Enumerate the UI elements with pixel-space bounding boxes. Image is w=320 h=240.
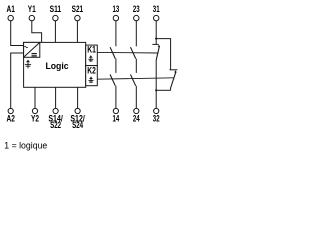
- wire between contacts 23-24: [135, 59, 137, 73]
- wire 31 down: [155, 21, 157, 45]
- svg-text:13: 13: [113, 4, 120, 14]
- terminal S11: [50, 4, 62, 21]
- K1 actuation linkage line: [97, 51, 158, 54]
- relay K2: [86, 66, 98, 86]
- terminal 31: [153, 4, 160, 21]
- wire 13 down: [115, 21, 117, 47]
- drive symbol in logic block: [25, 60, 31, 69]
- wire 23 down: [135, 21, 137, 47]
- wire Y1 to logic top: [32, 21, 42, 43]
- terminal Y2: [31, 108, 39, 123]
- contact K1 31-32 NC seat: [152, 43, 158, 45]
- wire K2 NC blade down: [170, 88, 172, 90]
- wire between contacts 13-14: [115, 59, 117, 73]
- contact K1 23-24 NO blade: [131, 47, 136, 58]
- contact K2 31-32 NC blade: [171, 72, 176, 88]
- terminal 32: [153, 108, 160, 123]
- relay K1: [86, 44, 98, 65]
- wire NC1 blade to 32: [155, 60, 157, 109]
- svg-text:Logic: Logic: [45, 60, 68, 71]
- node junction at 31 branch: [155, 38, 157, 40]
- svg-text:Y2: Y2: [31, 113, 39, 123]
- terminal 14: [113, 108, 120, 123]
- svg-text:S22: S22: [50, 120, 61, 130]
- svg-text:A2: A2: [7, 113, 15, 123]
- contact K2 13-14 NO blade: [110, 75, 115, 86]
- terminal A1: [7, 4, 15, 21]
- svg-text:S24: S24: [72, 120, 83, 130]
- contact K2 31-32 NC seat: [170, 69, 178, 71]
- wire A1 to power supply input: [11, 21, 24, 46]
- wire logic bottom to S14/S22: [55, 87, 57, 108]
- wire back to 32 column: [156, 89, 170, 91]
- node junction at 32: [155, 89, 157, 91]
- svg-text:A1: A1: [7, 4, 15, 14]
- wire bypass to K2 NC contact: [156, 39, 170, 70]
- terminal 24: [133, 108, 140, 123]
- wire S11 to logic top: [54, 21, 56, 43]
- svg-text:S21: S21: [72, 4, 84, 14]
- contact K1 31-32 NC arrow: [158, 45, 161, 47]
- wire A2 to power supply input: [11, 53, 24, 109]
- wire S21 to logic top: [76, 21, 78, 43]
- wire to 14: [115, 86, 117, 109]
- svg-text:K1: K1: [87, 44, 96, 54]
- contact K1 13-14 NO blade: [110, 47, 115, 58]
- terminal Y1: [28, 4, 36, 21]
- svg-text:14: 14: [113, 113, 120, 123]
- contact K2 23-24 NO blade: [131, 75, 136, 86]
- svg-text:23: 23: [133, 4, 140, 14]
- terminal S14/S22: [48, 108, 63, 130]
- svg-text:1 = logique: 1 = logique: [4, 141, 47, 152]
- logic block U1: [24, 42, 86, 87]
- svg-text:31: 31: [153, 4, 160, 14]
- wire to 24: [135, 86, 137, 109]
- svg-text:32: 32: [153, 113, 160, 123]
- contact K1 31-32 NC blade: [156, 46, 159, 60]
- svg-text:K2: K2: [87, 66, 96, 76]
- contact K2 31-32 NC arrow: [174, 70, 177, 72]
- terminal 13: [113, 4, 120, 21]
- terminal S21: [72, 4, 84, 21]
- power supply AC/DC converter: [24, 42, 40, 57]
- wire logic bottom to S12/S24: [77, 87, 79, 108]
- svg-text:S11: S11: [50, 4, 62, 14]
- terminal 23: [133, 4, 140, 21]
- K2 actuation linkage line: [97, 78, 173, 79]
- terminal S12/S24: [70, 108, 85, 130]
- svg-text:Y1: Y1: [28, 4, 36, 14]
- svg-text:24: 24: [133, 113, 140, 123]
- terminal A2: [7, 108, 15, 123]
- wire logic bottom to Y2: [34, 87, 36, 108]
